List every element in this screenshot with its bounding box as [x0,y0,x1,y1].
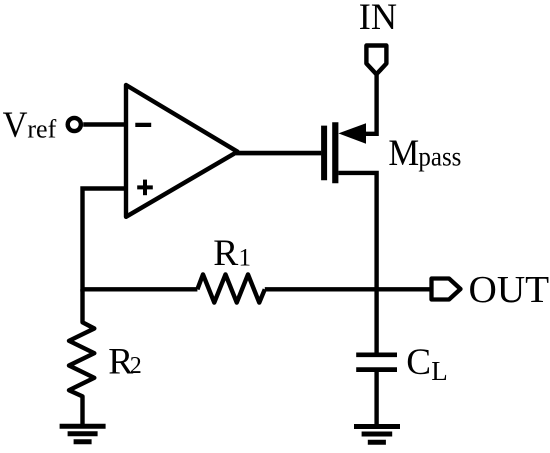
op-amp A1 (triangle) [126,85,238,217]
node Vref input terminal (circle) [68,118,81,131]
transistor Mpass source line [360,132,377,136]
wire CL bottom plate to ground [374,370,378,427]
svg-text:ref: ref [27,115,56,144]
transistor Mpass drain line and wire down to OUT node and CL [338,173,376,353]
capacitor CL top plate [356,352,397,357]
svg-text:IN: IN [359,0,397,38]
op-amp A1 plus sign [137,180,153,196]
svg-text:OUT: OUT [469,270,550,311]
op-amp A1 minus sign [135,123,151,127]
transistor Mpass source arrow (PMOS) [338,123,366,144]
svg-text:M: M [388,133,419,174]
svg-text:R: R [213,233,238,274]
resistor R2 (vertical zigzag) [69,289,94,424]
node IN terminal (pentagon pointing down) [366,46,386,75]
transistor Mpass gate bar [321,126,327,181]
svg-text:pass: pass [418,141,461,172]
svg-text:C: C [406,342,431,383]
wire R1 to OUT terminal [265,287,430,291]
svg-text:2: 2 [130,353,142,379]
wire op-amp output to Mpass gate [236,151,321,156]
wire op-amp non-inverting input to feedback node [83,189,127,292]
ground under R2 [60,426,106,442]
capacitor CL bottom plate [356,367,397,372]
resistor R1 (zigzag) [197,274,264,302]
wire Vref terminal to op-amp inverting input [83,122,126,126]
transistor Mpass channel bar [332,122,338,183]
ground under CL [354,427,400,443]
svg-text:1: 1 [239,244,252,271]
node OUT terminal (pentagon pointing right) [432,279,461,300]
wire IN terminal to Mpass source [374,75,378,136]
wire feedback node to R1 [83,287,198,291]
svg-text:V: V [3,105,28,146]
svg-text:L: L [431,356,448,386]
